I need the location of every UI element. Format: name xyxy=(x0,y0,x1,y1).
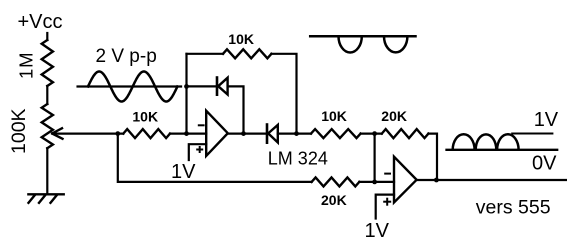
wire from 100K down to ground xyxy=(46,148,48,193)
wire between 1M and 100K xyxy=(46,86,48,104)
U1 non-inverting input wire to 1V xyxy=(189,144,206,160)
feedback top wire right segment, down to output node xyxy=(271,54,296,134)
node A junction dot xyxy=(115,131,120,136)
U1 output wire xyxy=(228,133,266,135)
diode D1 (points left) cathode bar xyxy=(216,78,219,95)
wiper arrow of potentiometer xyxy=(52,128,62,139)
sine source annotation: baseline xyxy=(78,85,181,87)
svg-text:10K: 10K xyxy=(132,108,158,124)
U1 plus sign xyxy=(197,147,202,152)
wire node F down to U2 minus input xyxy=(374,134,376,182)
resistor 1M (vertical zigzag) xyxy=(42,40,53,86)
wire 20K to U2 minus input xyxy=(359,181,394,183)
op-amp U1 triangle xyxy=(206,111,228,156)
svg-text:1V: 1V xyxy=(171,161,196,183)
svg-text:10K: 10K xyxy=(228,31,254,47)
diode D1 branch wire from node C xyxy=(187,85,217,87)
bottom signal wire from node A to 20K xyxy=(118,134,312,182)
diode D2 triangle xyxy=(268,125,278,143)
waveform annotation: positive hump 3 xyxy=(497,134,518,150)
waveform annotation: positive hump 1 xyxy=(453,134,475,150)
resistor 10K (to U2 summing node) xyxy=(311,129,361,138)
waveform annotation: 1V reference line xyxy=(512,133,552,135)
node G junction dot (U2 minus input) xyxy=(372,180,377,185)
resistor 20K (feedback of U2) xyxy=(382,129,429,138)
feedback top wire left segment xyxy=(187,53,224,55)
U2 minus sign xyxy=(385,173,390,175)
diode D1 triangle xyxy=(218,78,227,95)
wire top stub from +Vcc to R 1M xyxy=(46,33,48,40)
wire D2 to node E xyxy=(278,133,311,135)
wire wiper to node A xyxy=(54,133,124,135)
svg-text:LM 324: LM 324 xyxy=(268,149,328,169)
svg-text:10K: 10K xyxy=(321,108,347,124)
U2 plus sign xyxy=(384,199,390,205)
resistor 10K (input of U1) xyxy=(123,129,170,138)
svg-text:0V: 0V xyxy=(532,152,557,174)
waveform annotation: inverted half-wave (top middle) baseline xyxy=(310,35,415,38)
waveform annotation: negative hump 1 xyxy=(339,36,362,52)
waveform annotation: negative hump 2 xyxy=(384,36,407,52)
node E junction dot xyxy=(294,131,299,136)
svg-text:1V: 1V xyxy=(534,109,559,131)
feedback wire down to U2 output xyxy=(428,134,437,180)
resistor 10K (feedback of U1) xyxy=(223,49,271,58)
sine source annotation: 2-cycle sine xyxy=(88,72,177,102)
node F junction dot xyxy=(372,131,377,136)
svg-text:20K: 20K xyxy=(381,108,407,124)
svg-text:2 V p-p: 2 V p-p xyxy=(96,46,157,67)
node C junction dot (sine / diode tap) xyxy=(184,84,189,89)
U2 non-inverting input wire to 1V xyxy=(376,195,394,219)
wire 10K to U1 inverting input xyxy=(170,133,206,135)
op-amp U2 triangle xyxy=(394,157,417,203)
diode D1 wire to corner and down to U1 output xyxy=(228,86,244,133)
wire 10K to node F xyxy=(361,133,382,135)
waveform annotation: rectified output baseline (0V level) xyxy=(447,149,558,151)
svg-text:20K: 20K xyxy=(321,192,347,208)
wire vertical input node up to feedback xyxy=(185,54,187,134)
svg-text:vers 555: vers 555 xyxy=(476,197,551,219)
svg-text:1M: 1M xyxy=(15,52,36,79)
waveform annotation: positive hump 2 xyxy=(476,134,497,149)
resistor 20K (bottom, input of U2) xyxy=(312,177,360,186)
U1 minus sign xyxy=(199,124,204,126)
ground xyxy=(28,194,63,203)
U2 output wire to the right edge xyxy=(417,179,567,181)
svg-text:100K: 100K xyxy=(8,108,30,154)
diode D2 (points left) cathode bar xyxy=(266,125,269,143)
svg-text:1V: 1V xyxy=(365,220,390,242)
node H junction dot (U2 output) xyxy=(434,178,439,183)
node D junction dot (diode return) xyxy=(241,131,246,136)
potentiometer 100K (vertical zigzag) xyxy=(42,104,53,148)
node B junction dot (U1 minus input) xyxy=(184,131,189,136)
svg-text:+Vcc: +Vcc xyxy=(18,11,63,33)
